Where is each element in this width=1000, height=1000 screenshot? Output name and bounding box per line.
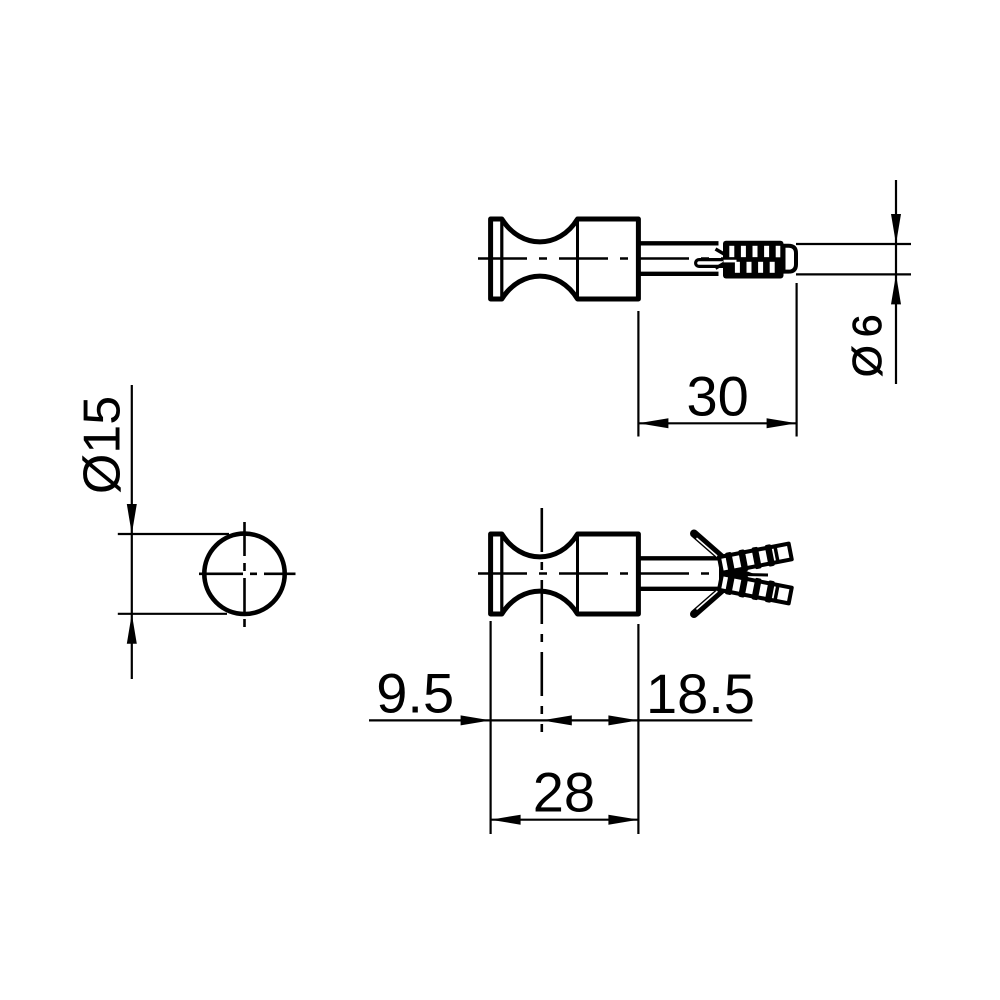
- dimension Ø15: extension lines: [118, 533, 229, 535]
- dimension Ø6: dimension line with outside arrows: [895, 180, 897, 244]
- front view: knob circle Ø15: [204, 534, 284, 614]
- bottom view: knob side outline: [491, 534, 639, 614]
- bottom view: screw shaft: [638, 556, 721, 560]
- svg-text:Ø6: Ø6: [844, 306, 890, 377]
- svg-text:30: 30: [686, 364, 748, 427]
- bottom view: dark wedge between anchor arms: [719, 566, 753, 582]
- front view: horizontal centre line: [199, 572, 296, 575]
- svg-text:9.5: 9.5: [376, 661, 454, 724]
- bottom view: upper serrated anchor arm: [718, 541, 792, 576]
- top view: knob side outline: [491, 219, 639, 299]
- dimension 28: dimension line with arrows: [491, 819, 639, 821]
- top view: shaft tip chamfers: [716, 249, 727, 256]
- top view: thread slots upper row: [729, 246, 734, 257]
- front view: vertical centre line: [243, 522, 246, 630]
- dimensions 9.5 / 18.5: dimension line: [369, 719, 752, 721]
- top view: anchor tip cap: [784, 246, 797, 272]
- bottom view: upper anchor spike: [694, 534, 726, 562]
- top view: screw shaft: [638, 241, 718, 245]
- dimension 30: extension lines: [637, 311, 639, 437]
- bottom view: horizontal centre line: [478, 572, 727, 575]
- top view: slit into ribbed body: [724, 259, 737, 263]
- dimension 30: dimension line with arrows: [638, 422, 796, 424]
- svg-text:28: 28: [533, 760, 595, 823]
- top view: anchor ribbed body (collapsed): [723, 241, 784, 279]
- top view: expansion slit in anchor: [696, 260, 726, 267]
- dimensions 9.5 / 18.5: extension lines: [490, 621, 492, 834]
- top view: thread slots lower row: [735, 262, 740, 273]
- dimension Ø15: dimension line with outside arrows: [131, 385, 133, 534]
- bottom view: vertical centre line: [540, 508, 543, 732]
- bottom view: lower serrated anchor arm: [718, 571, 792, 606]
- svg-text:18.5: 18.5: [646, 662, 755, 725]
- svg-text:Ø15: Ø15: [73, 396, 131, 494]
- dimension Ø6: extension lines: [796, 243, 911, 245]
- top view: horizontal centre line: [478, 257, 770, 260]
- bottom view: lower anchor spike: [694, 586, 726, 614]
